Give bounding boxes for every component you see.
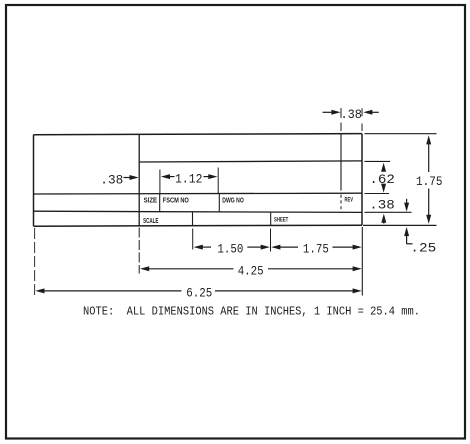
title block left cell divider xyxy=(138,134,140,225)
dimension 6.25 xyxy=(35,288,44,293)
title block SIZE row top line xyxy=(34,192,363,195)
title block right edge xyxy=(361,134,363,226)
svg-text:.25: .25 xyxy=(410,240,436,255)
FSCM/DWG cell divider xyxy=(218,194,220,213)
bottom extension lines xyxy=(34,228,36,296)
dimension 1.12: arrows and text xyxy=(161,174,170,179)
svg-text:6.25: 6.25 xyxy=(186,286,212,301)
SHEET cell divider xyxy=(270,212,272,225)
svg-text:4.25: 4.25 xyxy=(238,264,264,279)
dimension 1.75 bottom xyxy=(271,245,280,250)
svg-text:1.50: 1.50 xyxy=(217,241,243,256)
title block bottom edge xyxy=(34,225,363,226)
title block left edge xyxy=(33,135,35,227)
title block SCALE row top line xyxy=(34,211,363,212)
svg-text:SIZE: SIZE xyxy=(144,196,158,205)
dimension .62 right: extension lines xyxy=(365,160,391,162)
svg-text:DWG NO: DWG NO xyxy=(222,196,244,205)
dimension 4.25 xyxy=(140,266,149,271)
dimension .38 top: arrows and text xyxy=(323,111,334,113)
dimension 1.75 right vertical xyxy=(365,133,437,135)
svg-text:1.12: 1.12 xyxy=(175,172,203,187)
svg-text:1.75: 1.75 xyxy=(416,174,443,189)
dimension .38 top: extension lines xyxy=(340,108,342,118)
svg-text:SCALE: SCALE xyxy=(143,216,158,225)
SCALE cell divider xyxy=(192,212,194,225)
svg-text:REV: REV xyxy=(345,197,354,204)
dimension 1.50 xyxy=(194,245,203,250)
svg-text:.38: .38 xyxy=(100,172,123,187)
svg-text:SHEET: SHEET xyxy=(274,217,288,224)
SIZE cell divider xyxy=(159,194,161,213)
svg-text:NOTE: ALL DIMENSIONS ARE IN I: NOTE: ALL DIMENSIONS ARE IN INCHES, 1 IN… xyxy=(83,305,420,319)
svg-text:.38: .38 xyxy=(369,198,395,213)
dimension 1.12: extension bars xyxy=(159,170,161,194)
title block outline 6.25 x 1.75: top edge xyxy=(34,134,363,135)
svg-text:.38: .38 xyxy=(340,107,362,122)
dimension .25: leader arrow and text xyxy=(363,224,437,226)
svg-text:1.75: 1.75 xyxy=(303,241,329,256)
svg-text:FSCM NO: FSCM NO xyxy=(163,196,189,205)
title block inner horizontal line (top band) xyxy=(139,161,362,162)
REV column divider (solid above, dash-dot in SIZE row) xyxy=(340,134,342,190)
dimension .62 right: arrows and text xyxy=(381,163,386,172)
